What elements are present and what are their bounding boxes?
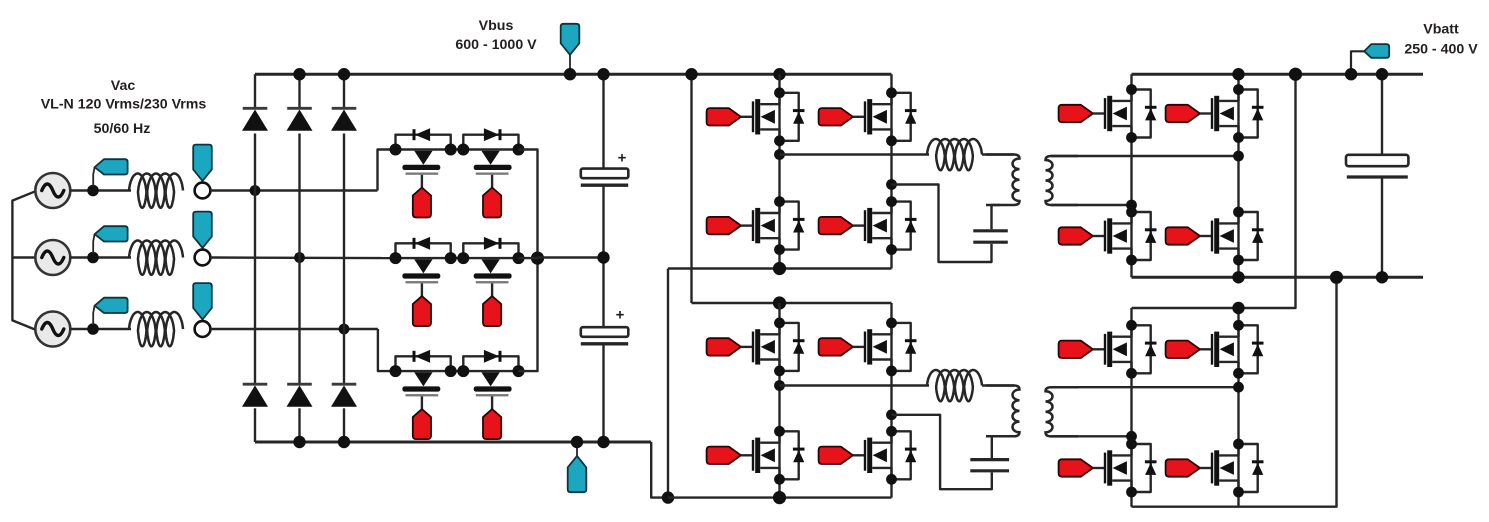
- capacitor Cr1: [973, 231, 1008, 242]
- transistor Q11 (bridge2 top-left): [707, 318, 805, 377]
- switch Q4 (bidirectional cell): [457, 237, 524, 326]
- transistor Q19 (obridge2 top-left): [1059, 320, 1157, 379]
- label 600 - 1000 V: [455, 37, 537, 53]
- diode D2b (bottom, leg 2): [287, 384, 313, 407]
- wire output cap leads: [1381, 74, 1383, 277]
- transistor Q9 (bridge1 bottom-left): [707, 196, 805, 255]
- wire DC- to bridge2 bottom: [651, 442, 668, 498]
- transistor Q7 (bridge1 top-left): [707, 87, 805, 146]
- label Vbus: [479, 18, 514, 34]
- svg-text:VL-N 120 Vrms/230 Vrms: VL-N 120 Vrms/230 Vrms: [41, 97, 207, 113]
- AC source V2 (phase B): [35, 240, 70, 275]
- svg-text:Vbus: Vbus: [479, 18, 514, 34]
- AC source V1 (phase A): [35, 173, 70, 208]
- current probe IB (teal): [93, 226, 127, 253]
- transistor Q17 (obridge1 bottom-left): [1059, 207, 1157, 266]
- diode D2t (top, leg 2): [287, 108, 313, 131]
- transformer T1 secondary: [1046, 156, 1079, 205]
- node Vbus probe: [564, 68, 576, 80]
- capacitor Cdc2 (+): [581, 307, 629, 344]
- wire Vbatt+ to obridge2 top: [1132, 74, 1296, 308]
- transistor Q18 (obridge1 bottom-right): [1166, 207, 1264, 266]
- node bridge2 left mid: [774, 380, 785, 391]
- wire rectifier leg 1: [254, 74, 256, 442]
- switch Q1 (bidirectional cell): [390, 128, 457, 217]
- wire T1 secondary top: [1051, 155, 1239, 157]
- node Vbatt probe: [1345, 68, 1357, 80]
- transistor Q22 (obridge2 bottom-right): [1166, 439, 1264, 498]
- wire bridge1 left leg: [778, 74, 780, 268]
- wire Vbatt+ rail: [1132, 73, 1424, 76]
- node obridge1 bottom right leg: [1232, 271, 1244, 283]
- label Vac: [111, 78, 136, 94]
- wire T1 primary bottom to Cr1: [992, 205, 1001, 229]
- node DC+ leg3: [338, 68, 350, 80]
- node Vbatt+ obridge2 feed: [1289, 68, 1302, 81]
- node bridge1 left mid: [774, 149, 785, 160]
- capacitor Cr2: [970, 460, 1009, 471]
- wire bridge1 bottom rail: [668, 267, 892, 269]
- wire obridge1 right leg: [1237, 74, 1239, 277]
- node bridge1 bottom left leg: [773, 262, 786, 275]
- wire rectifier leg 3: [343, 74, 345, 442]
- node DC+ bridge1 left leg: [773, 68, 785, 80]
- wire vienna row 3 inter-cell: [451, 370, 465, 372]
- wire vienna row2 to bus: [519, 257, 538, 259]
- node phase B / leg2: [294, 252, 305, 263]
- node DC- leg2: [293, 436, 305, 448]
- node bridge2 bottom left: [662, 491, 674, 503]
- svg-text:+: +: [618, 150, 627, 167]
- voltage probe VA (teal): [193, 145, 212, 189]
- node DC+ bridge2 feed: [685, 68, 697, 80]
- node obridge1 sec-top junction: [1233, 151, 1244, 162]
- wire obridge2 right leg: [1237, 308, 1239, 507]
- svg-text:Vbatt: Vbatt: [1423, 22, 1459, 38]
- wire phase A source to inductor: [70, 189, 131, 191]
- node junction phase C: [87, 323, 99, 335]
- transistor Q20 (obridge2 top-right): [1166, 320, 1264, 379]
- node DC- leg3: [338, 436, 350, 448]
- transistor Q10 (bridge1 bottom-right): [819, 196, 917, 255]
- capacitor Cout: [1346, 155, 1408, 177]
- wire vienna row 2 inter-cell: [451, 257, 465, 259]
- wire DC+ to bridge2 top: [690, 74, 692, 303]
- node junction phase B: [87, 252, 99, 264]
- wire Cr2 to bridge2 right mid: [892, 415, 992, 489]
- wire inductor to transformer T2: [982, 384, 1014, 386]
- wire T1 secondary bottom: [1051, 204, 1132, 206]
- wire phase A to vienna row 1: [210, 150, 395, 191]
- switch Q6 (bidirectional cell): [457, 350, 524, 439]
- node output cap top: [1376, 68, 1388, 80]
- wire phase C to vienna row 3: [210, 329, 395, 371]
- capacitor Cdc1 (+): [581, 150, 629, 186]
- wire Cr1 to bridge1 right mid: [892, 185, 992, 263]
- node bridge1 right mid: [886, 179, 897, 190]
- wire dc-link cap string: [602, 74, 604, 442]
- wire bridge2 top rail: [692, 302, 892, 304]
- node cap bot: [597, 436, 609, 448]
- wire vienna mid to cap midpoint: [538, 256, 604, 258]
- inductor Lr1: [927, 139, 982, 170]
- node bridge2 bottom left leg: [773, 491, 786, 504]
- node DC+ leg2: [293, 68, 305, 80]
- inductor LA: [129, 174, 183, 208]
- node output cap bottom: [1376, 271, 1388, 283]
- node phase A / leg1: [250, 185, 261, 196]
- transistor Q13 (bridge2 bottom-left): [707, 426, 805, 485]
- voltage probe VB (teal): [193, 212, 212, 256]
- svg-text:+: +: [616, 307, 625, 324]
- svg-text:250 - 400 V: 250 - 400 V: [1404, 42, 1478, 58]
- wire phase C source to inductor: [70, 328, 131, 330]
- node bridge2 right mid: [886, 409, 897, 420]
- node obridge2 return: [1330, 271, 1343, 284]
- label 250 - 400 V: [1404, 42, 1478, 58]
- wire obridge2 left leg: [1130, 308, 1132, 507]
- switch Q3 (bidirectional cell): [390, 237, 457, 326]
- inductor LB: [129, 241, 183, 275]
- wire T2 secondary bottom: [1051, 435, 1132, 437]
- node obridge2 sec-bottom junction: [1126, 431, 1137, 442]
- node neutral bus (left vertical): [12, 191, 35, 330]
- wire obridge1 bottom rail (Vbatt-): [1132, 276, 1424, 279]
- wire obridge2 bottom rail: [1132, 277, 1337, 506]
- diode D1b (bottom, leg 1): [242, 384, 268, 407]
- node junction phase A: [87, 185, 99, 197]
- diode D3t (top, leg 3): [331, 108, 357, 131]
- terminal phase A: [195, 183, 211, 199]
- transistor Q12 (bridge2 top-right): [819, 318, 917, 377]
- current probe IC (teal): [93, 298, 127, 325]
- voltage probe DC- (teal): [568, 442, 587, 492]
- label Vbatt: [1423, 22, 1459, 38]
- wire phase B source to inductor: [70, 256, 131, 258]
- transformer T2 secondary: [1046, 387, 1079, 436]
- transistor Q15 (obridge1 top-left): [1059, 84, 1157, 143]
- wire bridge2 right leg: [890, 303, 892, 498]
- label VL-N 120 Vrms/230 Vrms: [41, 97, 207, 113]
- node phase C / leg3: [339, 324, 350, 335]
- inductor Lr2: [927, 370, 982, 401]
- voltage probe VC (teal): [193, 283, 212, 327]
- terminal phase C: [195, 321, 211, 337]
- transistor Q16 (obridge1 top-right): [1166, 84, 1264, 143]
- wire obridge1 left leg: [1130, 74, 1132, 277]
- transformer T1 primary: [986, 155, 1020, 205]
- wire vienna row 1 inter-cell: [451, 148, 465, 150]
- label 50/60 Hz: [94, 121, 151, 137]
- inductor LC: [129, 312, 183, 346]
- node obridge2 sec-top junction: [1233, 382, 1244, 393]
- node Vbatt+ right leg: [1232, 68, 1244, 80]
- wire bridge1 bottom to bridge2 bottom: [667, 269, 669, 498]
- switch Q2 (bidirectional cell): [457, 128, 524, 217]
- wire rectifier leg 2: [298, 74, 300, 442]
- current probe IA (teal): [93, 159, 127, 186]
- wire phase B to vienna row 2: [210, 256, 395, 259]
- svg-text:600 - 1000 V: 600 - 1000 V: [455, 37, 537, 53]
- voltage probe Vbatt (teal): [1351, 44, 1389, 74]
- node cap mid: [597, 251, 609, 263]
- wire DC- bottom rail: [255, 441, 651, 444]
- wire bridge1 right leg: [890, 74, 892, 268]
- AC source V3 (phase C): [35, 312, 70, 347]
- diode D3b (bottom, leg 3): [331, 384, 357, 407]
- terminal phase B: [195, 250, 211, 266]
- voltage probe Vbus (teal): [561, 24, 580, 74]
- transistor Q21 (obridge2 bottom-left): [1059, 439, 1157, 498]
- wire bridge2 left mid to inductor: [780, 384, 930, 386]
- node vienna bus mid: [531, 252, 544, 265]
- transformer T2 primary: [986, 386, 1020, 437]
- wire T2 primary bottom to Cr2: [992, 436, 1000, 458]
- svg-text:Vac: Vac: [111, 78, 136, 94]
- node obridge1 sec-bottom junction: [1126, 200, 1137, 211]
- wire bridge2 bottom rail: [668, 496, 892, 498]
- node bridge2 top left leg: [773, 296, 786, 309]
- wire vienna row1 to bus: [519, 150, 538, 372]
- wire T2 secondary top: [1051, 386, 1239, 388]
- wire inductor to transformer T1: [982, 153, 1014, 155]
- transistor Q8 (bridge1 top-right): [819, 87, 917, 146]
- node cap top: [597, 68, 609, 80]
- svg-text:50/60 Hz: 50/60 Hz: [94, 121, 151, 137]
- wire bridge1 left mid to inductor: [780, 153, 930, 155]
- wire bridge2 left leg: [778, 303, 780, 498]
- diode D1t (top, leg 1): [242, 108, 268, 131]
- node DC- probe: [571, 436, 583, 448]
- switch Q5 (bidirectional cell): [390, 350, 457, 439]
- node obridge2 top right leg: [1232, 302, 1244, 314]
- transistor Q14 (bridge2 bottom-right): [819, 426, 917, 485]
- wire DC+ top rail: [255, 73, 892, 76]
